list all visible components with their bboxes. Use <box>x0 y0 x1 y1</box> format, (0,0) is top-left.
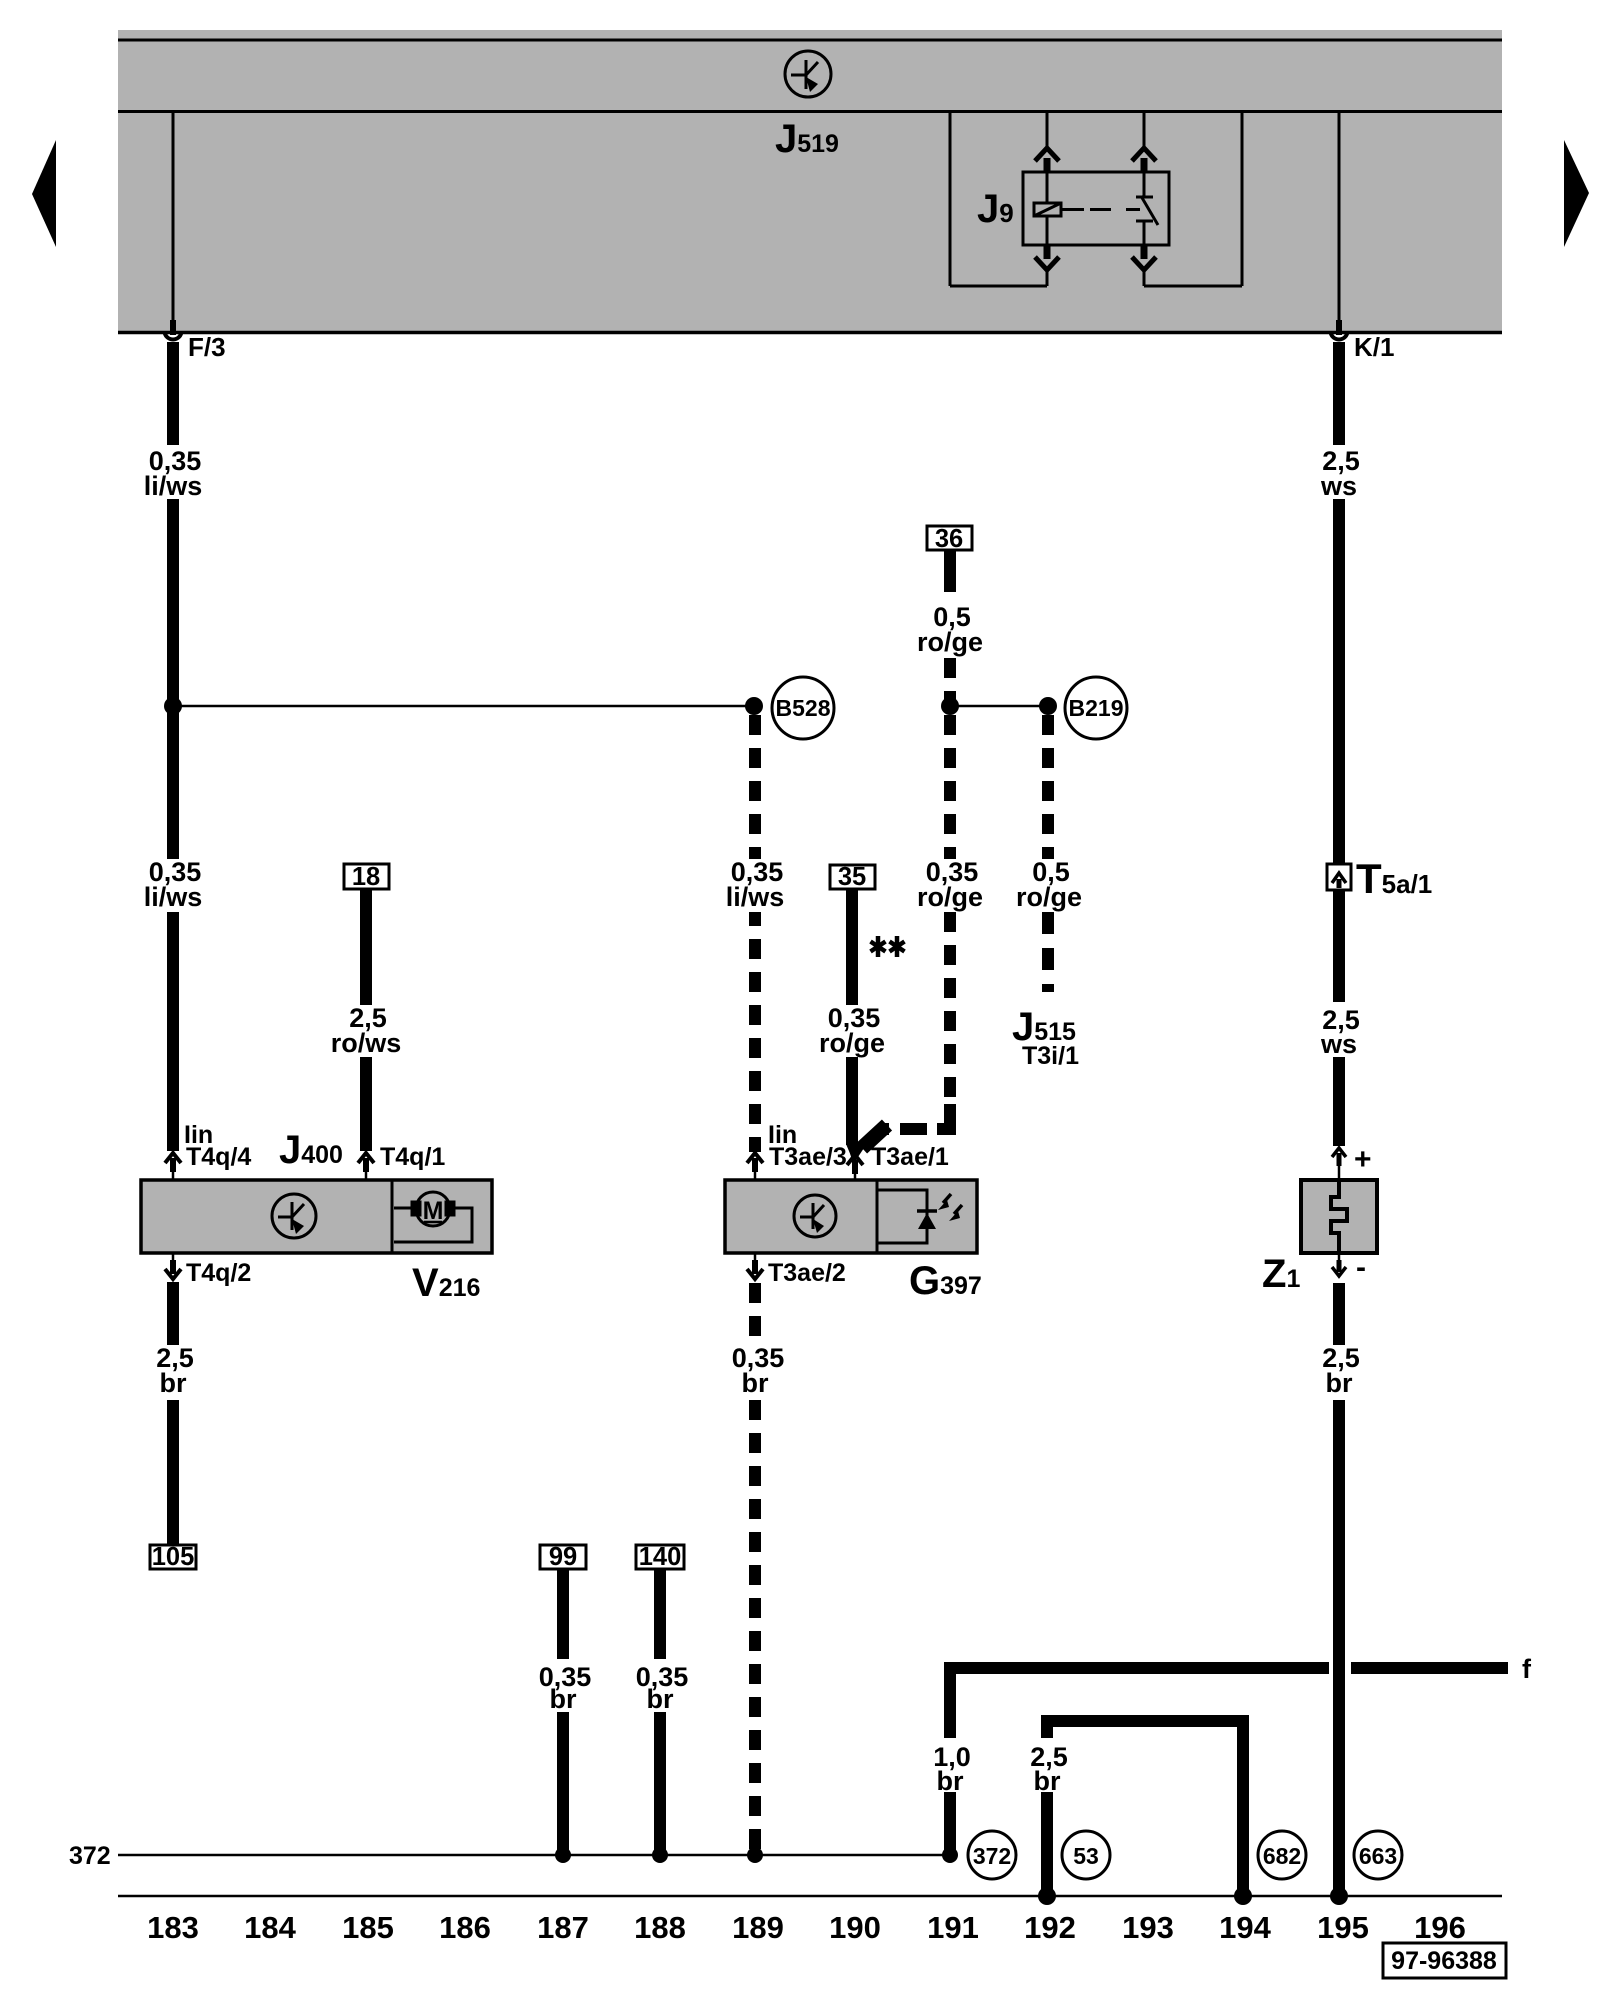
ground symbol circle 663 <box>1354 1831 1402 1879</box>
relay J9 pin lines and arrows <box>1035 113 1156 286</box>
svg-text:T4q/1: T4q/1 <box>380 1143 445 1171</box>
relay J9 outer bracket <box>950 113 1242 286</box>
terminal box 35 <box>830 863 875 891</box>
relay J9 box with coil and switch <box>1023 172 1169 245</box>
wire 2,5 br from Z1 <box>1333 1283 1345 1896</box>
svg-text:36: 36 <box>935 525 963 553</box>
diagram number box 97-96388 <box>1383 1943 1506 1978</box>
wire 0,35 ro/ge from 35 <box>846 889 858 1145</box>
component box Z1 <box>1301 1180 1377 1253</box>
K symbol in circle (bus symbol in J519) <box>785 51 831 97</box>
svg-text:105: 105 <box>152 1543 195 1571</box>
svg-text:ro/ge: ro/ge <box>917 627 983 657</box>
junction 2,5 br at rail <box>1038 1887 1056 1905</box>
svg-text:ws: ws <box>1320 471 1357 501</box>
svg-text:br: br <box>937 1766 964 1796</box>
svg-text:ro/ws: ro/ws <box>331 1028 402 1058</box>
track numbers <box>147 1910 1466 1945</box>
K symbol in G397 <box>794 1195 836 1237</box>
pin T4q/4 <box>165 1153 181 1180</box>
junction 99 wire <box>555 1847 571 1863</box>
ground line 372 <box>118 1854 950 1857</box>
wire 0,35 li/ws from F/3 (upper) <box>167 342 179 1151</box>
wire 2,5 ws from K/1 (upper) <box>1333 342 1345 1146</box>
svg-text:B219: B219 <box>1069 695 1124 721</box>
svg-text:188: 188 <box>634 1910 686 1945</box>
junction 663 at rail <box>1330 1887 1348 1905</box>
svg-text:f: f <box>1522 1654 1532 1684</box>
G397 internal partition <box>876 1180 879 1253</box>
junction at B219 <box>1039 697 1057 715</box>
terminal box 105 <box>150 1543 196 1571</box>
svg-text:53: 53 <box>1073 1843 1099 1869</box>
svg-text:99: 99 <box>549 1543 577 1571</box>
pin K/1 lead inside module <box>1338 113 1341 328</box>
svg-text:185: 185 <box>342 1910 394 1945</box>
svg-text:F/3: F/3 <box>188 332 226 362</box>
svg-text:184: 184 <box>244 1910 296 1945</box>
dashed wire 0,35 li/ws to T3ae/3 <box>749 715 761 1152</box>
junction at 36 wire <box>941 697 959 715</box>
ground symbol circle 682 <box>1258 1831 1306 1879</box>
svg-text:br: br <box>1326 1368 1353 1398</box>
right page arrow <box>1564 140 1589 247</box>
component box G397 <box>725 1180 977 1253</box>
pin + of Z1 <box>1332 1148 1346 1180</box>
svg-text:372: 372 <box>69 1842 111 1870</box>
svg-text:T3ae/2: T3ae/2 <box>768 1259 846 1287</box>
svg-text:ro/ge: ro/ge <box>819 1028 885 1058</box>
svg-text:br: br <box>1034 1766 1061 1796</box>
pin T3ae/1 <box>847 1155 863 1180</box>
terminal box 36 <box>927 525 972 553</box>
connector T5a/1 <box>1327 864 1351 890</box>
J400 internal partition <box>391 1180 394 1253</box>
terminal box 140 <box>636 1543 684 1571</box>
K symbol in J400 <box>272 1194 316 1238</box>
svg-text:+: + <box>1354 1143 1372 1176</box>
pin F/3 lead inside module <box>172 113 175 328</box>
svg-text:183: 183 <box>147 1910 199 1945</box>
ground symbol circle 372 <box>968 1831 1016 1879</box>
pin - of Z1 <box>1332 1253 1346 1276</box>
pin T4q/1 <box>358 1153 374 1180</box>
svg-text:35: 35 <box>838 863 866 891</box>
motor V216 inside J400 <box>394 1192 472 1242</box>
terminal box 18 <box>344 863 389 891</box>
component box J400 <box>141 1180 492 1253</box>
terminal socket F/3 <box>165 320 182 340</box>
photodiode in G397 <box>877 1190 962 1243</box>
svg-text:186: 186 <box>439 1910 491 1945</box>
svg-text:K/1: K/1 <box>1354 332 1394 362</box>
ground symbol circle 53 <box>1062 1831 1110 1879</box>
junction 140 wire <box>652 1847 668 1863</box>
svg-text:T3i/1: T3i/1 <box>1022 1042 1079 1070</box>
heating element symbol in Z1 <box>1331 1180 1347 1253</box>
connection circle B219 <box>1065 677 1127 739</box>
dashed wire 0,5 ro/ge to J515 <box>1042 715 1054 992</box>
svg-text:br: br <box>742 1368 769 1398</box>
control module J519 gray bar <box>118 30 1502 334</box>
svg-text:189: 189 <box>732 1910 784 1945</box>
svg-text:682: 682 <box>1263 1843 1301 1869</box>
svg-text:li/ws: li/ws <box>726 882 785 912</box>
wire 0,35 br from 99 <box>557 1569 569 1855</box>
pin T4q/2 <box>165 1253 181 1279</box>
pin T3ae/2 <box>747 1253 763 1279</box>
svg-text:196: 196 <box>1414 1910 1466 1945</box>
wire to connection B528 <box>173 705 754 708</box>
terminal socket K/1 <box>1331 320 1348 340</box>
svg-text:ro/ge: ro/ge <box>917 882 983 912</box>
svg-text:T4q/4: T4q/4 <box>186 1143 251 1171</box>
junction T3ae/2 wire <box>747 1847 763 1863</box>
svg-text:194: 194 <box>1219 1910 1271 1945</box>
terminal box 99 <box>540 1543 586 1571</box>
wire to connection B219 <box>950 705 1048 708</box>
wire f (ground distribution) <box>944 1662 1508 1855</box>
node junction on left wire <box>164 697 182 715</box>
dashed wire 0,35 ro/ge down to G397 elbow <box>944 715 956 1104</box>
svg-text:ro/ge: ro/ge <box>1016 882 1082 912</box>
svg-text:B528: B528 <box>776 695 831 721</box>
junction 682 at rail <box>1234 1887 1252 1905</box>
svg-text:191: 191 <box>927 1910 979 1945</box>
pin T3ae/3 <box>747 1153 763 1180</box>
svg-text:T3ae/3: T3ae/3 <box>769 1143 847 1171</box>
wire 0,35 br from 140 <box>654 1569 666 1855</box>
svg-text:192: 192 <box>1024 1910 1076 1945</box>
svg-text:97-96388: 97-96388 <box>1391 1947 1497 1975</box>
footnote asterisks ** <box>871 936 905 957</box>
wire 2,5 ro/ws <box>360 889 372 1151</box>
svg-text:-: - <box>1356 1251 1366 1284</box>
junction at B528 <box>745 697 763 715</box>
svg-text:195: 195 <box>1317 1910 1369 1945</box>
svg-text:18: 18 <box>352 863 380 891</box>
wire 2,5 br loop to ground 682 <box>1041 1715 1249 1896</box>
svg-text:372: 372 <box>973 1843 1011 1869</box>
svg-text:187: 187 <box>537 1910 589 1945</box>
connection circle B528 <box>772 677 834 739</box>
svg-text:br: br <box>647 1684 674 1714</box>
wire 2,5 br from T4q/2 <box>167 1282 179 1545</box>
diagonal wire into T3ae/1 <box>862 1125 887 1148</box>
svg-text:br: br <box>160 1368 187 1398</box>
svg-text:ws: ws <box>1320 1029 1357 1059</box>
wire 0,5 ro/ge from 36 <box>944 550 956 572</box>
dashed wire 0,35 br from T3ae/2 <box>749 1283 761 1851</box>
left page arrow <box>32 140 56 247</box>
svg-text:140: 140 <box>639 1543 682 1571</box>
svg-text:br: br <box>550 1684 577 1714</box>
svg-text:T3ae/1: T3ae/1 <box>871 1143 949 1171</box>
svg-text:li/ws: li/ws <box>144 471 203 501</box>
svg-text:190: 190 <box>829 1910 881 1945</box>
junction f wire <box>942 1847 958 1863</box>
bottom rail line <box>118 1895 1502 1898</box>
svg-text:li/ws: li/ws <box>144 882 203 912</box>
svg-text:T4q/2: T4q/2 <box>186 1259 251 1287</box>
svg-text:663: 663 <box>1359 1843 1397 1869</box>
svg-text:193: 193 <box>1122 1910 1174 1945</box>
